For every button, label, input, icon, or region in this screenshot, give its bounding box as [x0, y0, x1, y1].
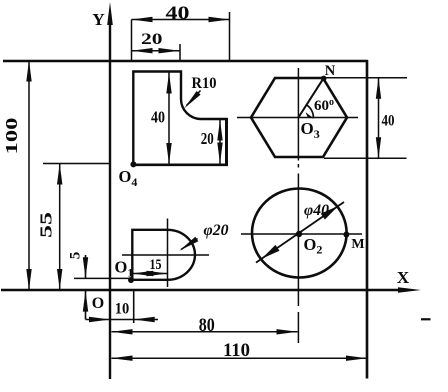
svg-text:N: N [325, 63, 336, 79]
svg-text:80: 80 [199, 315, 215, 336]
svg-text:M: M [351, 237, 364, 252]
svg-text:5: 5 [68, 252, 84, 260]
svg-text:15: 15 [150, 257, 162, 273]
svg-text:O1: O1 [115, 258, 134, 280]
svg-text:20: 20 [201, 129, 214, 148]
svg-text:φ40: φ40 [304, 202, 329, 219]
svg-text:O2: O2 [304, 235, 323, 257]
svg-text:R10: R10 [192, 75, 217, 92]
svg-text:O3: O3 [301, 119, 320, 141]
svg-text:40: 40 [382, 113, 395, 130]
svg-text:O4: O4 [119, 167, 138, 189]
svg-text:20: 20 [141, 31, 163, 48]
svg-text:O: O [92, 295, 104, 312]
svg-text:100: 100 [2, 118, 21, 155]
svg-text:55: 55 [37, 212, 56, 238]
svg-text:60o: 60o [314, 97, 334, 114]
svg-text:40: 40 [166, 3, 190, 24]
svg-text:110: 110 [223, 340, 250, 361]
svg-text:X: X [397, 268, 410, 287]
svg-text:Y: Y [92, 10, 104, 29]
svg-text:40: 40 [151, 108, 165, 127]
svg-text:φ20: φ20 [204, 222, 229, 239]
svg-text:10: 10 [115, 301, 130, 318]
